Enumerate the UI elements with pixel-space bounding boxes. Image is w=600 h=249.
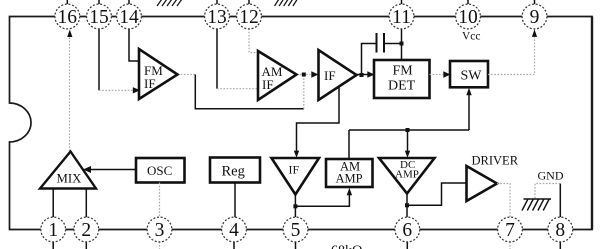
arrow into AM AMP bottom [347, 188, 352, 195]
pin 8 [548, 217, 573, 242]
arrow into FM IF [133, 87, 140, 93]
pin 11 [389, 4, 414, 29]
wire FM IF output down and across [195, 75, 303, 109]
svg-text:5: 5 [291, 220, 301, 241]
pin 1 [41, 217, 66, 242]
wire pin13 down [216, 29, 218, 89]
svg-text:FM: FM [393, 64, 414, 79]
wire gray GND bracket [535, 184, 560, 200]
hatch marks top group B [275, 0, 298, 6]
wire SW output to pin9 [488, 36, 535, 75]
Reg box [210, 158, 260, 183]
pin 14 [117, 4, 142, 29]
svg-text:SW: SW [461, 69, 483, 84]
svg-text:MIX: MIX [57, 171, 83, 185]
svg-text:7: 7 [505, 220, 515, 241]
wire gray riser to node [303, 75, 305, 109]
package right edge thick [591, 17, 593, 230]
pin 10 [456, 4, 481, 29]
IF2 amp triangle pointing down [272, 158, 320, 195]
wire gray OSC to pin3 [159, 183, 161, 218]
svg-text:DRIVER: DRIVER [472, 154, 519, 168]
MIX triangle [40, 152, 96, 189]
pin 7 [498, 217, 523, 242]
wire pin8 to GND net [559, 184, 561, 218]
arrow into MIX [83, 166, 91, 173]
svg-text:1: 1 [48, 220, 58, 241]
svg-text:9: 9 [530, 7, 540, 28]
svg-text:IF: IF [324, 68, 336, 83]
svg-text:11: 11 [392, 7, 411, 28]
svg-text:AMP: AMP [395, 169, 419, 181]
FM IF amp triangle [139, 49, 178, 99]
svg-text:6: 6 [402, 220, 412, 241]
wire DC AMP output to pin6 [406, 194, 408, 218]
wire pin15 down [98, 29, 100, 91]
wire branch to DRIVER input [407, 183, 467, 205]
wire gray pin12 to AM IF upper input [249, 29, 258, 53]
wire IF1 output to FM DET [357, 74, 369, 76]
svg-text:IF: IF [262, 77, 274, 92]
svg-text:10: 10 [458, 7, 478, 28]
node dot pin5 branch [293, 204, 297, 208]
pin 12 [237, 4, 262, 29]
svg-text:DET: DET [388, 79, 416, 94]
pin 5 [283, 217, 308, 242]
wire gray pin15 to FM IF arrow [99, 89, 133, 91]
arrow into pin16 [67, 30, 72, 38]
svg-text:OSC: OSC [147, 163, 172, 178]
node dot at pin11 line [400, 42, 404, 46]
arrow into IF1 [311, 71, 318, 77]
svg-text:IF: IF [144, 76, 156, 91]
wire IF1 feedback tap [297, 88, 340, 152]
svg-text:13: 13 [207, 7, 227, 28]
arrow into pin9 [532, 29, 537, 37]
svg-text:Reg: Reg [222, 163, 245, 179]
svg-text:GND: GND [538, 169, 564, 183]
svg-text:68kΩ: 68kΩ [331, 244, 362, 249]
pin 9 [522, 4, 547, 29]
pin 3 [147, 217, 172, 242]
wire pin14 to FM IF upper input [129, 29, 139, 62]
node dot pin6 branch [405, 203, 409, 207]
wire drop to DC AMP [407, 130, 409, 151]
pin 4 [222, 217, 247, 242]
svg-text:AMP: AMP [336, 172, 363, 186]
IF1 amp triangle [319, 50, 357, 100]
arrow into DC AMP [405, 151, 410, 158]
wire gray AM IF output [297, 74, 311, 76]
OSC box [136, 158, 185, 183]
ground symbol [522, 199, 551, 211]
svg-text:8: 8 [555, 220, 565, 241]
wire drop to AM AMP [348, 130, 350, 159]
pin 6 [395, 217, 420, 242]
svg-text:3: 3 [155, 220, 165, 241]
pin 2 [74, 217, 99, 242]
wire capacitor right lead [384, 43, 402, 45]
arrow into SW [443, 71, 450, 77]
wire gray pin13 to AM IF lower input [217, 88, 258, 90]
svg-text:Vcc: Vcc [462, 31, 481, 43]
pin 16 [55, 4, 80, 29]
pin stubs bottom [53, 242, 560, 249]
svg-text:14: 14 [119, 7, 139, 28]
AM AMP box [326, 159, 373, 187]
pin stubs top [67, 0, 534, 4]
DC AMP triangle pointing down [379, 158, 435, 194]
svg-text:IF: IF [289, 162, 300, 176]
wire gray DRIVER output to pin7 [497, 184, 510, 218]
arrow into SW bottom [466, 88, 471, 95]
node dot on bus [406, 128, 410, 132]
arrow into IF2 top [294, 151, 299, 158]
arrow into FM DET [367, 71, 374, 77]
wire branch to AM AMP bottom [295, 195, 349, 206]
gray stubs bottom pin3 pin7 [160, 242, 511, 249]
wire riser to capacitor [362, 44, 377, 75]
pin 15 [87, 4, 112, 29]
wire FM IF output gray segment [178, 74, 196, 76]
wire OSC to MIX [90, 169, 136, 171]
FM DET box [374, 60, 430, 98]
wire IF2 output to pin5 [294, 195, 296, 218]
AM IF amp triangle [258, 51, 297, 100]
wire Reg to pin4 [234, 183, 236, 218]
svg-text:16: 16 [58, 7, 78, 28]
wire FM DET output gray [430, 74, 444, 76]
DRIVER triangle [467, 166, 498, 201]
hatch marks top group A [157, 0, 182, 6]
node junction dot [302, 73, 306, 77]
wire pin11 down to FM DET [401, 29, 403, 61]
wire SW bottom riser [468, 92, 470, 130]
wire control bus [349, 129, 469, 131]
svg-text:12: 12 [239, 7, 259, 28]
svg-text:15: 15 [89, 7, 109, 28]
wire MIX legs to pin1 pin2 [53, 189, 86, 218]
wire gray MIX apex to pin16 [69, 37, 71, 151]
svg-text:4: 4 [229, 220, 239, 241]
pin 13 [205, 4, 230, 29]
svg-text:2: 2 [81, 220, 91, 241]
node dot IF1 out [360, 73, 364, 77]
SW box [450, 61, 488, 87]
capacitor C plates [377, 33, 385, 53]
